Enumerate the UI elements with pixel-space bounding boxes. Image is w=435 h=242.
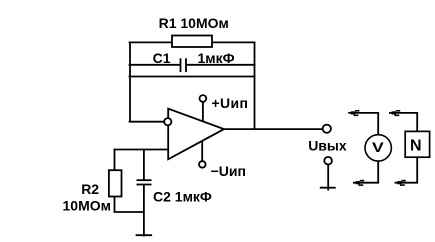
svg-text:Uвых: Uвых — [308, 137, 347, 153]
svg-text:10МОм: 10МОм — [63, 197, 111, 213]
svg-text:C2 1мкФ: C2 1мкФ — [153, 189, 212, 205]
svg-text:−Uип: −Uип — [211, 163, 246, 179]
svg-text:R2: R2 — [81, 181, 99, 197]
svg-text:V: V — [372, 139, 385, 155]
svg-text:1мкФ: 1мкФ — [198, 50, 235, 66]
svg-text:+Uип: +Uип — [212, 95, 249, 111]
svg-text:C1: C1 — [153, 50, 171, 66]
svg-text:R1 10МОм: R1 10МОм — [159, 15, 229, 31]
svg-text:N: N — [410, 138, 422, 155]
